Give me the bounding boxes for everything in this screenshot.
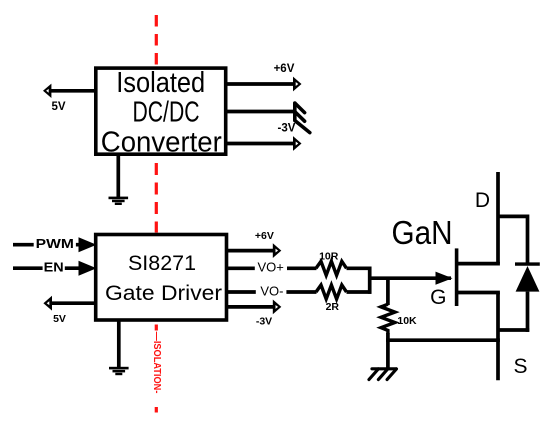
label PWM — [34, 236, 76, 251]
wire diode cathode — [526, 215, 530, 265]
resistor R2 2R — [316, 285, 347, 299]
diode D1 triangle — [516, 266, 540, 292]
label EN — [43, 260, 65, 275]
wire 10K to chassis ground — [386, 333, 390, 369]
svg-text:+6V: +6V — [255, 230, 274, 242]
wire node to 10K resistor — [386, 278, 390, 305]
wire VO+ output — [227, 266, 317, 270]
svg-text:GaN: GaN — [392, 214, 453, 251]
feathered arrow symbol on middle output — [295, 103, 310, 133]
diode D1 cathode bar — [515, 262, 540, 265]
svg-text:Converter: Converter — [101, 126, 222, 158]
svg-text:5V: 5V — [51, 101, 65, 113]
isolation boundary dashed line (below gate driver box) — [155, 325, 158, 331]
wire junction bar to gate — [370, 276, 451, 280]
wire middle (0V) output of converter — [227, 110, 295, 114]
wire source — [496, 293, 500, 381]
svg-text:DC/DC: DC/DC — [133, 96, 200, 128]
wire +6V output of converter — [227, 82, 294, 86]
isolation boundary dashed line (upper segment) — [155, 15, 158, 66]
resistor R3 10K — [381, 304, 395, 334]
svg-text:VO+: VO+ — [258, 260, 284, 275]
svg-text:G: G — [430, 286, 446, 309]
wire VO- output — [227, 290, 317, 294]
svg-text:Isolated: Isolated — [116, 67, 205, 99]
svg-text:5V: 5V — [53, 313, 66, 325]
svg-text:S: S — [513, 355, 527, 378]
open arrowhead -3V driver (right) — [273, 300, 282, 315]
wire 5V input to gate driver — [51, 301, 95, 305]
wire diode anode to source — [498, 328, 529, 332]
SI8271 gate driver block U2 — [96, 235, 227, 321]
open arrowhead +6V (right) — [293, 77, 302, 92]
svg-text:+6V: +6V — [274, 63, 295, 75]
wire driver ground stem — [117, 321, 121, 368]
wire +6V output of driver — [227, 249, 274, 253]
wire PWM input — [13, 243, 81, 247]
wire -3V output of driver — [227, 305, 274, 309]
filled arrowhead into gate — [436, 272, 453, 285]
filled arrowhead PWM into driver — [79, 237, 97, 252]
open arrowhead 5V driver (left) — [43, 296, 52, 311]
svg-text:D: D — [475, 189, 490, 212]
label VO+ — [255, 260, 287, 275]
svg-text:-3V: -3V — [256, 315, 272, 327]
wire converter ground stem — [116, 155, 120, 198]
wire diode anode — [526, 292, 530, 332]
open arrowhead 5V (left) — [43, 84, 51, 98]
svg-text:-3V: -3V — [278, 123, 296, 135]
svg-text:PWM: PWM — [36, 236, 74, 251]
wire R1 to junction bar — [347, 266, 372, 270]
wire 5V input to DC/DC converter — [51, 89, 96, 93]
svg-text:—ISOLATION-: —ISOLATION- — [151, 332, 163, 394]
ground symbol (gate driver) — [109, 367, 129, 375]
Q1 source channel connection — [457, 291, 500, 295]
wire EN input — [13, 266, 81, 270]
label VO- — [256, 283, 287, 298]
svg-text:10R: 10R — [319, 251, 339, 263]
isolation boundary dashed line (middle segment) — [155, 163, 158, 233]
junction bar joining R1 and R2 outputs — [368, 267, 372, 294]
svg-text:EN: EN — [44, 260, 64, 275]
wire drain to diode top — [498, 215, 528, 219]
svg-text:Gate Driver: Gate Driver — [105, 282, 222, 305]
chassis ground symbol — [369, 369, 396, 380]
open arrowhead +6V driver (right) — [273, 243, 282, 258]
resistor R1 10R — [316, 261, 347, 275]
GaN transistor Q1 gate bar — [455, 248, 459, 306]
open arrowhead -3V (right) — [293, 136, 302, 151]
wire drain — [496, 172, 500, 264]
svg-text:2R: 2R — [326, 301, 340, 313]
isolation boundary dashed line (bottom dash) — [155, 407, 158, 413]
svg-text:SI8271: SI8271 — [128, 252, 196, 275]
wire -3V output of converter — [227, 142, 294, 146]
ground symbol (converter) — [109, 197, 129, 205]
wire R2 to junction bar — [347, 290, 372, 294]
svg-text:10K: 10K — [397, 315, 417, 327]
svg-text:VO-: VO- — [260, 283, 283, 298]
filled arrowhead EN into driver — [79, 261, 97, 276]
DC/DC converter block U1 — [96, 67, 226, 158]
Q1 drain channel connection — [457, 262, 500, 266]
wire source return (ground node to source) — [386, 338, 500, 342]
